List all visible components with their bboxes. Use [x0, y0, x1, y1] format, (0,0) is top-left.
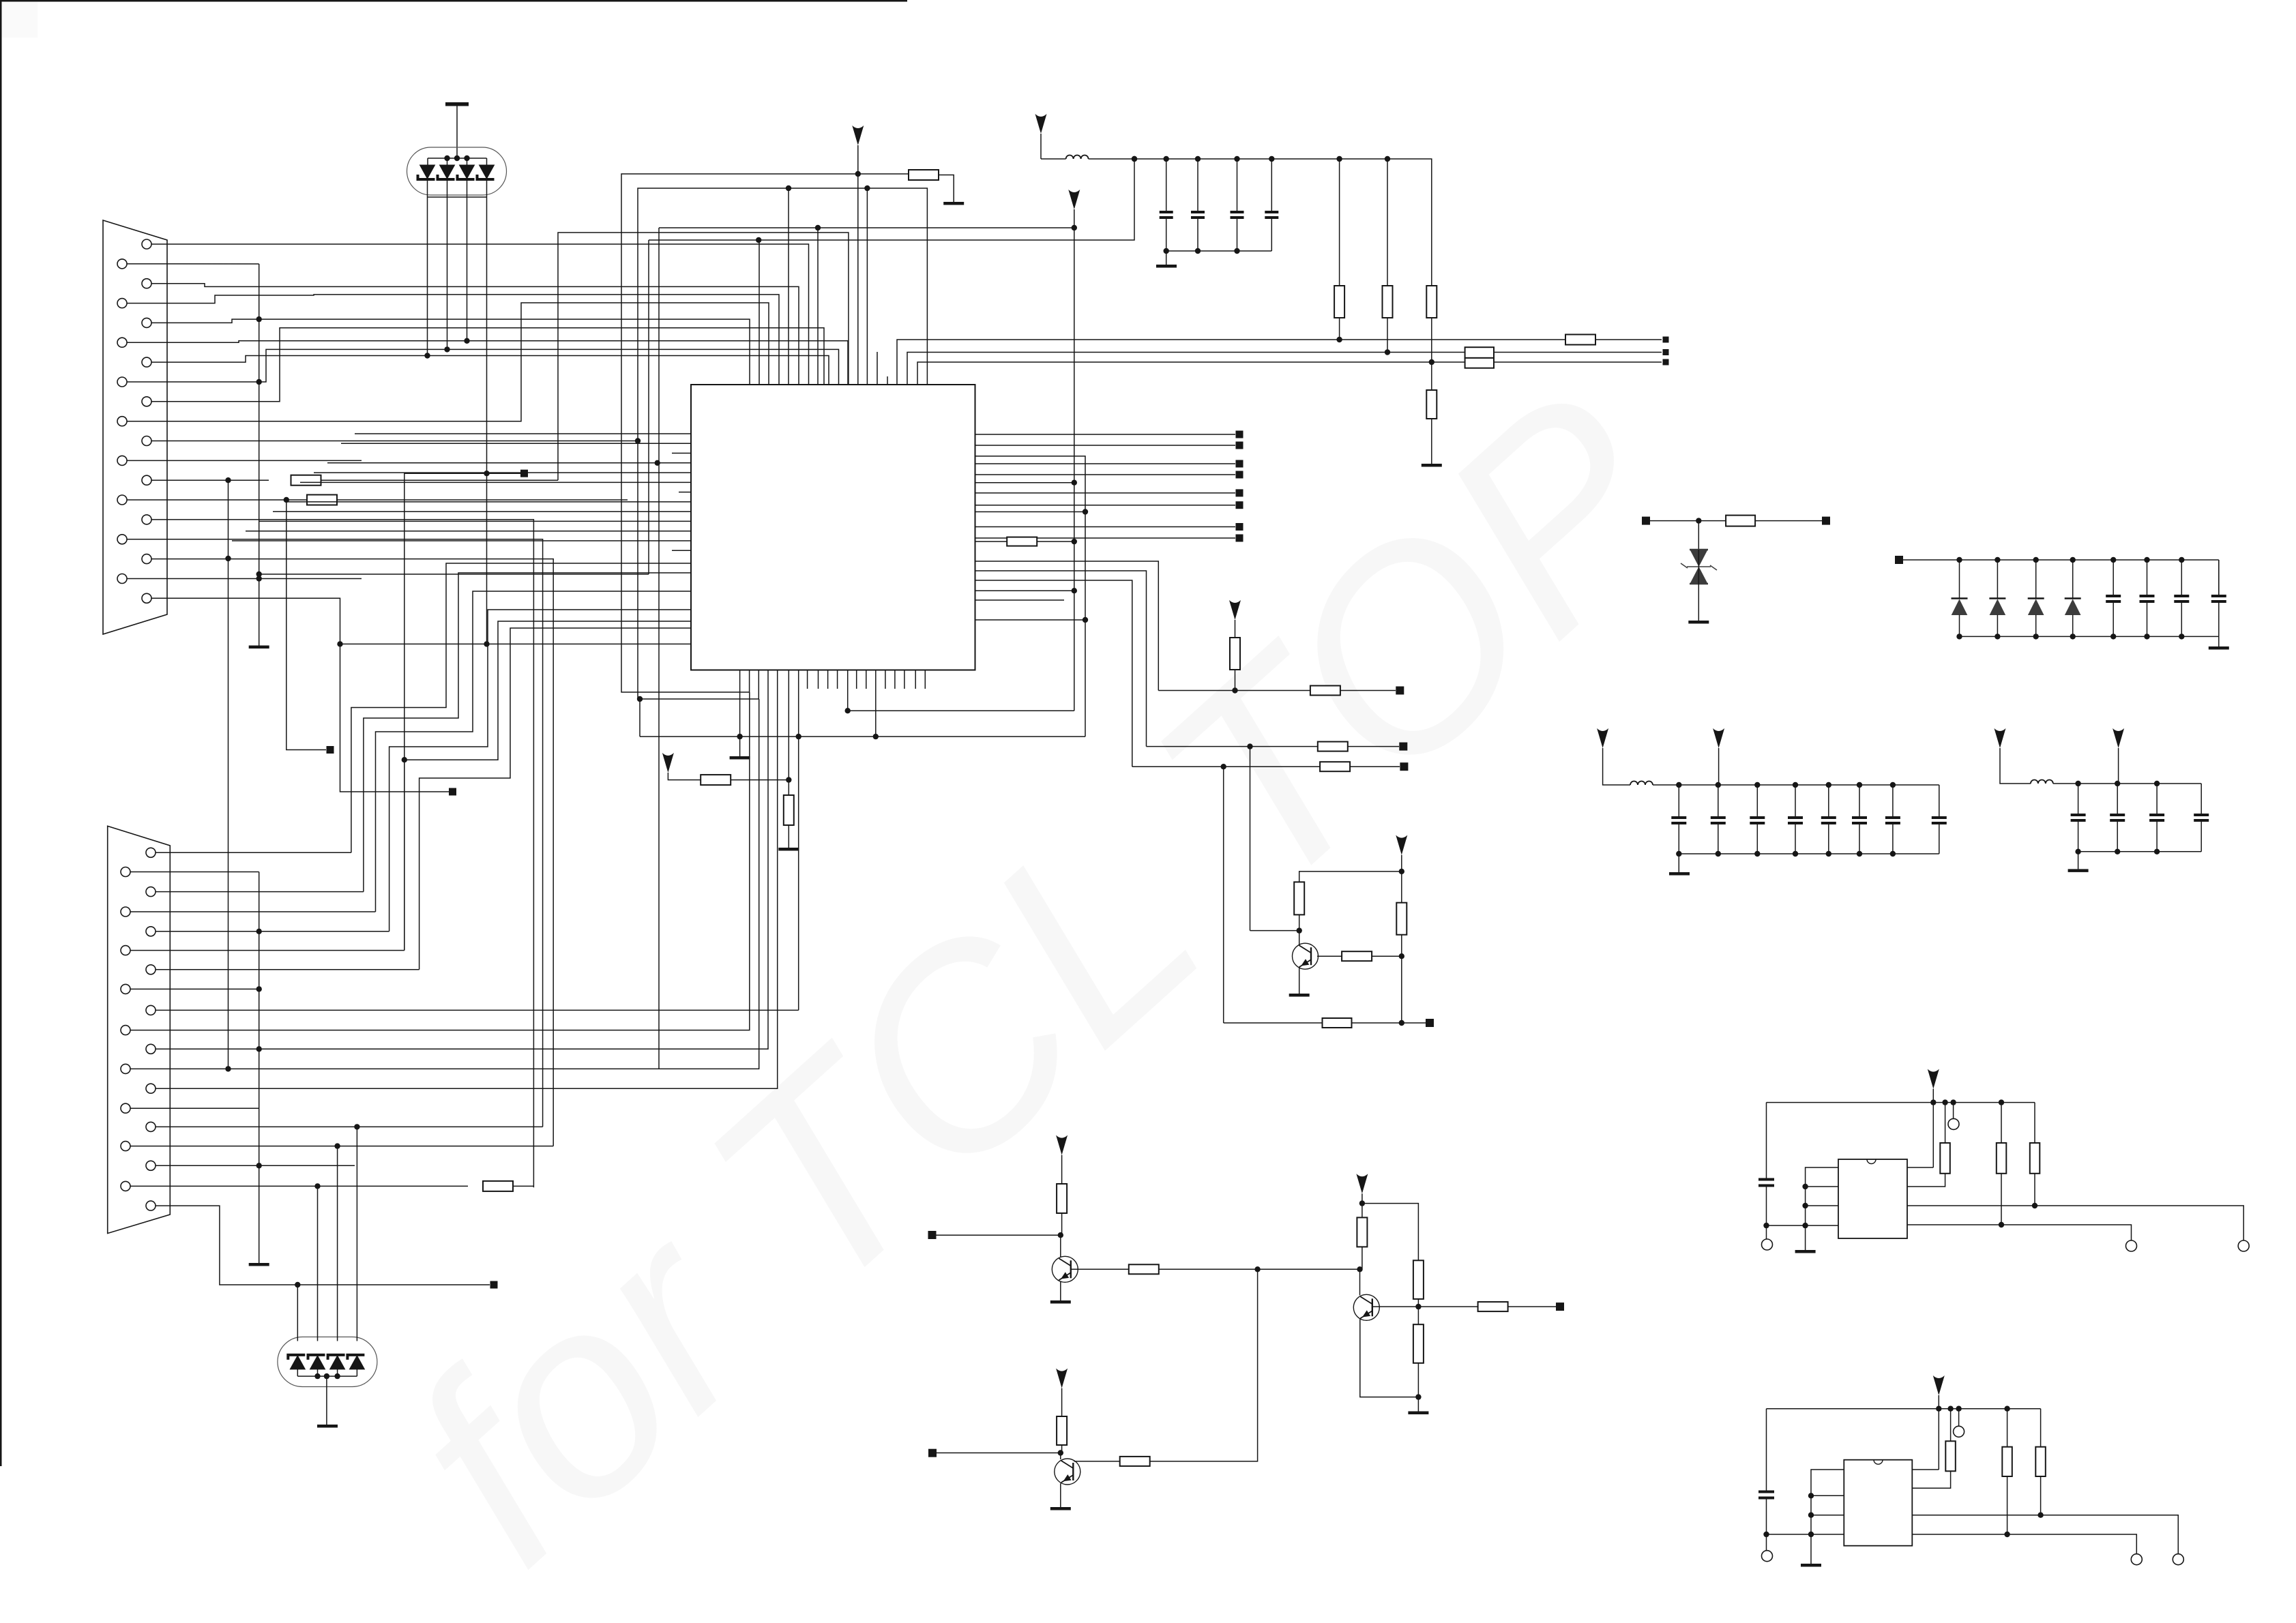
junction — [1802, 1223, 1808, 1228]
wire — [1372, 955, 1401, 957]
connector J2 pin 14 — [121, 1103, 130, 1113]
junction — [2154, 849, 2160, 854]
wire — [2147, 560, 2148, 596]
wire — [130, 1107, 259, 1109]
connector J2 shell — [108, 826, 171, 1233]
wire — [939, 175, 954, 203]
connector J2 pin 4 — [121, 907, 130, 917]
resistor — [1310, 686, 1340, 696]
wire — [1932, 1103, 1934, 1167]
junction — [655, 460, 660, 466]
junction — [2110, 634, 2116, 639]
junction — [2004, 1532, 2010, 1537]
wire — [151, 328, 824, 402]
wire — [2007, 1409, 2008, 1447]
connector J1 pin 6 — [117, 338, 127, 347]
junction — [1890, 851, 1896, 857]
wire — [151, 441, 638, 442]
ground — [2068, 869, 2089, 872]
wire — [1402, 1022, 1426, 1024]
ground — [1669, 872, 1690, 876]
wire — [1811, 1515, 1844, 1516]
wire — [798, 670, 799, 1010]
wire — [1938, 1409, 1939, 1470]
wire — [1197, 159, 1198, 212]
wire — [156, 670, 778, 1088]
junction — [2179, 557, 2184, 563]
pin circle — [2126, 1240, 2137, 1251]
junction — [637, 696, 643, 702]
ground — [249, 646, 269, 649]
transistor Q1 — [1293, 943, 1319, 969]
wire — [130, 988, 259, 989]
resistor — [784, 795, 794, 825]
wire — [672, 550, 691, 551]
ground — [1422, 464, 1442, 467]
junction — [1385, 349, 1390, 355]
wire rail — [1653, 784, 1939, 786]
wire — [1507, 1306, 1556, 1307]
wire — [1040, 134, 1042, 159]
wire — [649, 159, 1134, 240]
diode D5 of array — [288, 1355, 305, 1369]
junction — [1297, 927, 1302, 933]
junction — [1857, 851, 1862, 857]
wire — [875, 670, 877, 736]
wire — [156, 1126, 543, 1127]
resistor — [1323, 1018, 1352, 1028]
junction — [2075, 781, 2080, 786]
junction — [424, 353, 430, 358]
terminal square — [1426, 1019, 1434, 1027]
wire — [1417, 1363, 1419, 1397]
junction — [756, 237, 761, 243]
ground — [1688, 621, 1709, 624]
connector J1 shell — [103, 220, 167, 634]
resistor — [1129, 1264, 1159, 1274]
connector J1 pin 16 — [117, 535, 127, 544]
terminal square — [1236, 442, 1243, 449]
resistor — [1426, 390, 1437, 419]
wire — [1401, 872, 1402, 903]
wire — [130, 1185, 468, 1187]
wire anode rail — [428, 158, 487, 159]
wire — [672, 453, 691, 454]
ground — [1156, 265, 1177, 268]
junction — [256, 986, 262, 992]
wire ground bus — [259, 872, 260, 1264]
ground — [1050, 1507, 1071, 1510]
wire — [857, 145, 859, 174]
wire — [364, 573, 691, 892]
terminal square — [490, 1281, 498, 1289]
wire — [975, 526, 1236, 528]
connector J2 pin 18 — [121, 1181, 130, 1191]
wire — [127, 295, 779, 385]
wire — [327, 462, 691, 464]
wire — [1147, 746, 1319, 747]
junction — [324, 1373, 329, 1379]
pin circle — [2238, 1240, 2249, 1251]
resistor — [2035, 1447, 2046, 1476]
wire — [151, 479, 269, 481]
connector J1 pin 4 — [117, 299, 127, 308]
wire — [1959, 560, 1960, 599]
wire — [1041, 158, 1066, 160]
wire ground bus — [259, 264, 260, 646]
wire — [456, 106, 458, 158]
supply arrow — [1056, 1135, 1068, 1155]
wire — [2117, 820, 2118, 852]
connector J1 pin 14 — [117, 495, 127, 505]
wire — [739, 670, 741, 736]
wire stub — [904, 670, 905, 689]
wire — [2118, 748, 2119, 784]
wire — [1494, 361, 1662, 363]
resistor — [1007, 537, 1037, 546]
supply arrow — [1597, 728, 1608, 748]
wire — [1756, 823, 1758, 854]
wire — [317, 1186, 319, 1341]
wire stub — [827, 670, 829, 689]
junction — [256, 571, 262, 577]
supply arrow — [1056, 1369, 1068, 1388]
junction — [464, 155, 469, 161]
terminal square — [1895, 556, 1903, 564]
wire — [1074, 1461, 1120, 1462]
junction — [225, 1066, 231, 1071]
junction — [1763, 1532, 1769, 1537]
IC U2 — [1838, 1159, 1907, 1238]
connector J2 pin 3 — [146, 887, 156, 897]
wire — [1806, 1186, 1838, 1187]
junction — [2144, 634, 2149, 639]
junction — [2032, 1203, 2037, 1208]
wire — [2035, 1206, 2243, 1240]
terminal square — [928, 1449, 937, 1457]
resistor — [1294, 882, 1304, 914]
capacitor — [1671, 818, 1686, 823]
junction — [314, 1373, 320, 1379]
resistor — [1413, 1260, 1424, 1299]
wire — [1907, 1205, 2035, 1206]
connector J1 pin 2 — [117, 259, 127, 269]
capacitor — [2194, 815, 2209, 820]
junction — [295, 1282, 300, 1287]
wire — [1828, 823, 1829, 854]
wire — [847, 670, 849, 711]
wire — [376, 591, 692, 912]
capacitor — [1885, 818, 1900, 823]
wire — [1401, 855, 1402, 872]
wire — [1997, 560, 1998, 599]
junction — [1336, 156, 1342, 162]
wire — [1350, 766, 1400, 767]
junction — [1195, 156, 1201, 162]
wire — [130, 872, 259, 873]
resistor — [1997, 1143, 2007, 1174]
wire — [1859, 823, 1860, 854]
wire — [356, 1127, 357, 1341]
wire riser — [788, 188, 789, 385]
wire — [1766, 1225, 1767, 1239]
wire collector — [1060, 1453, 1061, 1460]
pin circle — [1762, 1551, 1773, 1562]
terminal square — [520, 470, 528, 477]
diode — [2028, 599, 2044, 615]
wire — [1061, 1445, 1063, 1453]
junction — [1999, 1099, 2004, 1105]
resistor (series pair upper) — [1465, 347, 1494, 358]
junction — [1808, 1513, 1814, 1518]
wire — [1907, 1174, 1945, 1187]
junction — [225, 477, 231, 483]
wire — [1235, 670, 1236, 691]
wire — [1037, 541, 1074, 542]
ground — [1408, 1412, 1428, 1415]
wire — [1158, 690, 1310, 691]
diode D8 of array — [347, 1355, 364, 1369]
wire — [1352, 1022, 1402, 1024]
junction — [1890, 782, 1896, 788]
wire — [1299, 914, 1300, 930]
wire — [130, 699, 759, 1069]
terminal square — [1236, 460, 1243, 468]
wire — [1718, 823, 1719, 854]
wire — [1223, 766, 1224, 1023]
terminal square — [1236, 501, 1243, 509]
wire — [389, 610, 691, 932]
wire — [1932, 1089, 1934, 1103]
wire — [1806, 1167, 1838, 1250]
wire — [1387, 318, 1388, 353]
wire bus — [640, 736, 1085, 737]
junction — [256, 1163, 262, 1168]
terminal square — [1399, 743, 1407, 751]
junction — [815, 225, 821, 230]
capacitor — [1750, 818, 1765, 823]
junction — [1132, 156, 1137, 162]
terminal square — [928, 1231, 937, 1239]
connector J1 pin 13 — [142, 475, 151, 485]
wire — [648, 240, 649, 574]
wire — [1678, 823, 1679, 854]
wire — [739, 736, 741, 756]
wire stub — [885, 670, 886, 689]
wire — [2078, 820, 2079, 852]
connector J1 pin 17 — [142, 554, 151, 564]
wire — [1235, 620, 1236, 638]
wire stub — [915, 670, 916, 689]
terminal square — [1822, 517, 1830, 525]
wire — [1811, 1495, 1844, 1496]
wire — [788, 670, 789, 780]
wire — [356, 1369, 357, 1376]
wire — [975, 445, 1236, 446]
junction — [1930, 1099, 1936, 1105]
pin circle — [1762, 1239, 1773, 1250]
resistor — [1396, 903, 1407, 935]
wire — [1756, 785, 1758, 818]
junction — [454, 155, 460, 161]
diode D4 of array — [477, 165, 495, 179]
capacitor — [1265, 212, 1278, 218]
wire — [638, 188, 927, 699]
pin circle — [2173, 1554, 2183, 1565]
wire — [156, 1206, 490, 1285]
wire — [420, 628, 691, 970]
resistor — [1383, 286, 1393, 318]
wire — [156, 931, 389, 932]
wire — [1401, 956, 1402, 1023]
diode D2 of array — [438, 165, 455, 179]
junction — [256, 379, 262, 385]
wire — [1678, 785, 1679, 818]
resistor — [701, 775, 731, 785]
connector J1 pin 15 — [142, 515, 151, 524]
wire — [1766, 1534, 1767, 1551]
junction — [2070, 557, 2076, 563]
supply arrow — [1035, 114, 1047, 134]
connector J2 pin 6 — [121, 946, 130, 955]
pin circle — [1954, 1426, 1964, 1437]
connector J1 pin 12 — [117, 456, 127, 465]
junction — [845, 708, 851, 713]
supply arrow — [1995, 728, 2006, 748]
wire — [1828, 785, 1829, 818]
wire — [297, 1369, 298, 1376]
diode — [1952, 599, 1968, 615]
junction — [1164, 248, 1169, 254]
wire — [975, 456, 1086, 736]
wire — [1348, 746, 1399, 747]
junction — [1857, 782, 1862, 788]
junction — [1802, 1184, 1808, 1189]
wire — [447, 158, 448, 165]
wire — [1360, 1320, 1419, 1397]
resistor — [2002, 1447, 2012, 1476]
junction — [1802, 1203, 1808, 1208]
junction — [284, 497, 289, 503]
junction — [337, 641, 342, 646]
wire — [1074, 209, 1075, 711]
wire — [1362, 1204, 1363, 1218]
wire — [297, 1285, 298, 1341]
junction — [1808, 1532, 1814, 1537]
wire — [156, 1165, 355, 1166]
supply arrow — [1356, 1174, 1368, 1193]
ground — [1050, 1300, 1071, 1304]
wire — [286, 500, 326, 750]
resistor — [1057, 1416, 1067, 1445]
wire bus — [907, 353, 1465, 385]
junction — [1942, 1099, 1947, 1105]
capacitor — [2106, 596, 2121, 601]
connector J2 pin 13 — [146, 1084, 156, 1093]
capacitor — [1711, 818, 1726, 823]
wire — [1766, 1409, 1767, 1492]
wire corner — [2218, 560, 2220, 596]
wire — [975, 571, 1147, 747]
wire — [1061, 1155, 1063, 1185]
connector J2 pin 17 — [146, 1161, 156, 1170]
wire — [975, 561, 1159, 691]
junction — [1415, 1394, 1421, 1399]
junction — [2070, 634, 2076, 639]
wire — [1271, 159, 1272, 212]
power bar — [445, 102, 469, 106]
wire — [1766, 1186, 1767, 1226]
connector J1 pin 10 — [117, 417, 127, 426]
wire — [668, 773, 701, 780]
wire — [1250, 930, 1299, 932]
connector J1 pin 9 — [142, 397, 151, 406]
wire — [2078, 852, 2079, 869]
wire — [1061, 1213, 1063, 1236]
wire — [1159, 1268, 1258, 1270]
capacitor — [1160, 212, 1173, 218]
frame corner block — [2, 2, 38, 38]
supply arrow — [1229, 600, 1241, 620]
wire — [156, 969, 420, 970]
wire — [355, 433, 691, 434]
connector J2 pin 2 — [121, 867, 130, 877]
capacitor — [2211, 596, 2226, 601]
wire — [127, 349, 839, 385]
connector J2 pin 15 — [146, 1122, 156, 1131]
junction — [635, 438, 641, 443]
TVS dual zener — [1681, 550, 1717, 584]
wire — [1197, 218, 1198, 251]
terminal square — [449, 788, 456, 796]
junction — [1357, 1266, 1362, 1272]
wire — [151, 284, 799, 385]
wire stub — [837, 670, 838, 689]
wire — [130, 692, 750, 1030]
diode D6 of array — [308, 1355, 325, 1369]
connector J1 pin 1 — [142, 239, 151, 249]
wire — [513, 1185, 533, 1187]
wire collector — [1359, 1269, 1361, 1295]
junction — [354, 1124, 359, 1129]
wire — [1362, 1193, 1363, 1203]
junction — [1221, 764, 1226, 769]
junction — [1385, 156, 1390, 162]
capacitor — [1191, 212, 1205, 218]
junction — [334, 1143, 340, 1148]
junction — [402, 757, 407, 762]
junction — [2033, 634, 2039, 639]
wire — [2218, 601, 2220, 636]
frame border left — [0, 0, 2, 1466]
diode D7 of array — [328, 1355, 345, 1369]
junction — [1956, 634, 1962, 639]
wire — [259, 520, 691, 522]
junction — [484, 471, 489, 476]
wire — [1912, 1469, 1939, 1470]
watermark text — [352, 333, 1733, 1620]
wire — [151, 520, 533, 1187]
wire — [975, 505, 1236, 506]
wire — [1997, 615, 1998, 637]
junction — [1676, 782, 1681, 788]
junction — [786, 777, 791, 782]
resistor — [1945, 1441, 1956, 1471]
terminal square — [1663, 359, 1669, 366]
junction — [2179, 634, 2184, 639]
wire — [1950, 1409, 1952, 1442]
wire — [1372, 1306, 1419, 1307]
